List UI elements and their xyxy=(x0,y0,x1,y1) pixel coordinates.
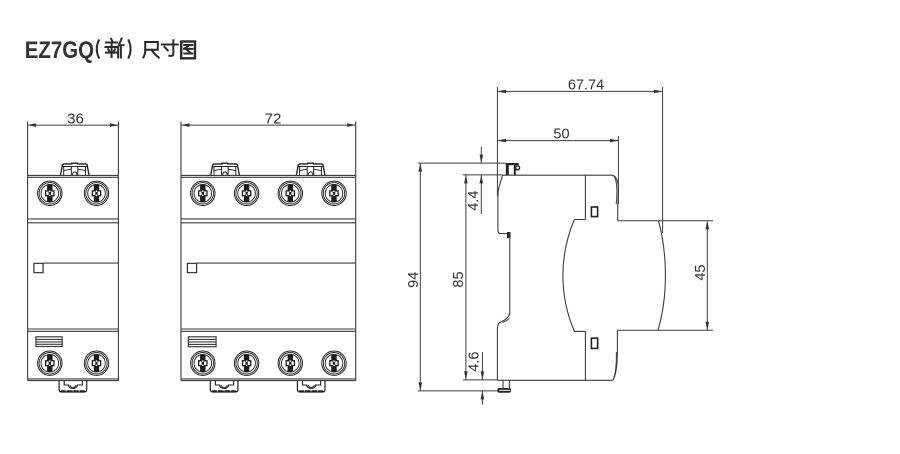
svg-text:36: 36 xyxy=(67,110,84,127)
svg-text:45: 45 xyxy=(693,265,709,281)
right bulge xyxy=(658,221,665,330)
title glyph tu (drawing) xyxy=(181,42,195,59)
mid horizontal line xyxy=(43,262,118,264)
bottom right corner arc xyxy=(613,330,617,380)
body bottom edge double line xyxy=(28,379,119,381)
svg-text:4.6: 4.6 xyxy=(467,352,483,372)
center bulge left edge xyxy=(563,220,586,381)
upper slot xyxy=(591,207,597,217)
svg-text:67.74: 67.74 xyxy=(568,78,604,94)
lower slot xyxy=(591,338,597,348)
side bottom edge xyxy=(497,379,613,381)
extension line top (85 / body top) xyxy=(463,174,503,176)
back notch xyxy=(507,232,511,238)
inner vertical upper xyxy=(574,175,585,219)
bottom clip front left xyxy=(210,381,238,393)
side body top edge xyxy=(503,174,613,176)
top clip front right xyxy=(296,163,325,175)
band line above bottom terminals xyxy=(28,329,119,331)
svg-text:85: 85 xyxy=(451,271,467,287)
terminal screw bottom-right xyxy=(84,351,108,375)
upper right ledge + 45 extension xyxy=(618,220,713,222)
side back mid vertical xyxy=(509,238,511,313)
extension line right for 50 xyxy=(617,136,619,205)
bottom clip front right xyxy=(297,381,325,393)
body right edge / extension line xyxy=(117,122,119,381)
side back profile upper slant xyxy=(498,175,507,233)
top clip side xyxy=(506,163,520,175)
band line above bottom terminals xyxy=(181,329,356,331)
dimension 4.4 xyxy=(480,147,482,215)
body right edge / extension line xyxy=(355,122,357,381)
extension line right for 67.74 xyxy=(662,87,664,233)
svg-text:50: 50 xyxy=(553,127,569,143)
svg-text:4.4: 4.4 xyxy=(466,191,482,211)
indicator window square xyxy=(34,263,43,272)
extension line left for 67.74 and 50 xyxy=(496,87,498,196)
lower right ledge + 45 extension xyxy=(617,329,713,331)
top clip front xyxy=(60,163,89,175)
dimension line 94 xyxy=(419,163,421,391)
title glyph chi (ruler) xyxy=(143,42,158,58)
svg-text:94: 94 xyxy=(406,272,422,288)
dimension line 50 xyxy=(497,140,618,142)
indicator window square xyxy=(187,263,196,272)
svg-text:EZ7GQ: EZ7GQ xyxy=(25,37,94,64)
extension line bottom (94 / clip bottom) xyxy=(418,390,498,392)
dimension 4.6 xyxy=(481,352,483,405)
band line below top terminals xyxy=(181,219,356,223)
label plate with lines xyxy=(188,337,216,347)
mid horizontal line xyxy=(197,262,356,264)
svg-text:72: 72 xyxy=(265,110,282,127)
terminal screw top-right xyxy=(84,181,108,205)
dimension line 72 xyxy=(181,124,356,126)
body top edge double line xyxy=(28,175,119,177)
title glyph cun (inch) xyxy=(162,40,178,56)
terminal screw bottom-left xyxy=(38,351,62,375)
top clip front left xyxy=(211,163,240,175)
bottom clip front xyxy=(59,381,87,393)
dimension line 85 xyxy=(465,175,467,380)
label plate with lines xyxy=(36,337,62,347)
extension line top (94 / clip top) xyxy=(418,162,506,164)
body bottom edge double line xyxy=(181,379,356,381)
body top edge double line xyxy=(181,175,356,177)
back hook xyxy=(497,314,509,381)
terminal screws top row xyxy=(191,181,215,205)
bottom clip side xyxy=(497,380,511,392)
title left parenthesis xyxy=(97,40,99,57)
title glyph xin (new) xyxy=(105,39,123,58)
dimension line 45 xyxy=(706,221,708,331)
title right parenthesis xyxy=(129,40,131,57)
terminal screws bottom row xyxy=(191,351,215,375)
body left edge / extension line xyxy=(27,122,29,381)
terminal screw top-left xyxy=(38,181,62,205)
extension line bottom (85 / body bottom) xyxy=(463,379,497,381)
band line below top terminals xyxy=(28,219,119,223)
dimension line 36 xyxy=(28,124,119,126)
top right corner arc xyxy=(613,175,619,221)
body left edge / extension line xyxy=(180,122,182,381)
dimension line 67.74 xyxy=(497,90,662,92)
